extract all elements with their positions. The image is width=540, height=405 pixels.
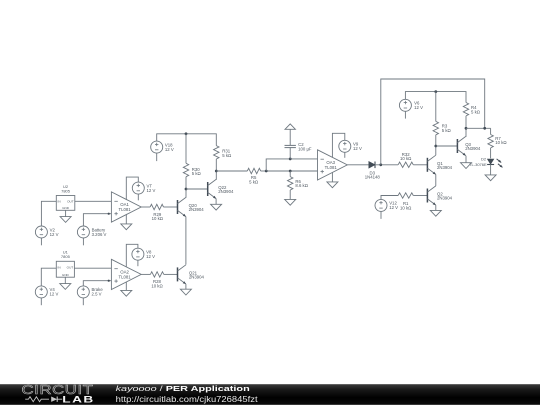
resistor R31 5 kOhm	[214, 146, 232, 159]
wire V2 top to U2 IN	[41, 201, 56, 226]
wire Q20 emitter down to Q21 collector	[185, 217, 187, 265]
wire Battery top to OA1 non-inverting input	[83, 214, 111, 226]
svg-text:5 kΩ: 5 kΩ	[471, 109, 481, 114]
transistor Q1 2N3904	[427, 155, 452, 174]
regulator U2 7805	[56, 184, 75, 211]
wire OA1 V+ pin to VT	[126, 177, 138, 200]
node R31/Q22/R5 junction	[215, 170, 218, 173]
svg-text:3.206 V: 3.206 V	[92, 232, 107, 237]
ground under R6	[285, 199, 296, 205]
svg-text:2N3904: 2N3904	[189, 207, 205, 212]
svg-text:OUT: OUT	[67, 265, 74, 269]
svg-text:12 V: 12 V	[146, 254, 155, 259]
svg-text:2N3904: 2N3904	[218, 189, 234, 194]
capacitor C2 100 uF	[285, 145, 296, 147]
voltage source V18 12 V	[151, 141, 174, 161]
resistor R1 10 kOhm	[398, 193, 427, 210]
svg-text:12 V: 12 V	[50, 232, 59, 237]
svg-text:2.5 V: 2.5 V	[92, 292, 102, 297]
node R30/Q20/Q22 junction	[185, 188, 188, 191]
voltage source V2 12 V	[35, 226, 58, 245]
voltage source V4 12 V	[35, 286, 58, 305]
wire node line to R7	[466, 127, 491, 129]
svg-text:2N3904: 2N3904	[189, 275, 205, 280]
ground under U1 GND pin	[60, 277, 71, 289]
wire Q22 collector to R31 node	[215, 171, 217, 179]
svg-text:10 kΩ: 10 kΩ	[495, 140, 507, 145]
svg-text:100 µF: 100 µF	[298, 146, 312, 151]
ground under Q21 emitter	[180, 284, 191, 295]
svg-text:5 kΩ: 5 kΩ	[442, 128, 452, 133]
svg-text:2N3904: 2N3904	[437, 196, 453, 201]
resistor R29 10 kOhm	[141, 204, 177, 221]
ground under LED D2	[485, 175, 496, 181]
op-amp OA1 TL081	[111, 192, 141, 222]
wire Q1 collector to R3 node	[435, 146, 437, 155]
wire Q1 emitter to Q2 collector	[435, 174, 437, 186]
resistor R32 10 kOhm	[398, 152, 427, 168]
svg-text:kayoooo / PER Application: kayoooo / PER Application	[116, 384, 250, 393]
node R4/Q3 junction	[465, 127, 468, 130]
resistor R6 8.6 kOhm	[288, 171, 309, 199]
node D3/top-rail junction	[379, 163, 382, 166]
resistor R28 10 kOhm	[141, 272, 177, 289]
ground under Q22 emitter	[211, 199, 222, 211]
wire D3 to R32	[375, 164, 398, 166]
transistor Q2 2N3904	[427, 186, 452, 205]
voltage source Brake 2.5 V	[77, 286, 103, 305]
voltage source V8 12 V (OA2 supply)	[132, 248, 155, 266]
svg-text:10 kΩ: 10 kΩ	[400, 205, 412, 210]
pin dot at OA2 + input	[108, 280, 110, 282]
voltage source V9 12 V (OA3 supply)	[339, 140, 362, 158]
ground under OA1 V- pin	[121, 215, 132, 230]
ground under U2 GND pin	[60, 210, 71, 222]
pin dot at OA1 + input	[108, 213, 110, 215]
svg-text:GND: GND	[62, 273, 70, 277]
wire node to Q22 base	[186, 188, 208, 190]
wire R5 to OA3 + input	[266, 170, 317, 172]
resistor R3 5 kOhm	[433, 92, 451, 146]
node C2 junction	[289, 158, 292, 161]
transistor Q21 2N3904	[178, 265, 205, 284]
wire C2 top lead to inverted ground	[289, 129, 291, 145]
wire OA2 V+ pin to V8	[126, 244, 138, 267]
svg-text:5 kΩ: 5 kΩ	[222, 153, 232, 158]
svg-text:D2: D2	[481, 157, 487, 162]
voltage source VT 12 V (OA1 supply)	[132, 182, 155, 200]
wire Q3 collector to R4 node	[465, 128, 467, 136]
LED D2 TL-3076E	[469, 157, 494, 175]
svg-text:10 kΩ: 10 kΩ	[151, 283, 163, 288]
wire node to Q3 base	[436, 145, 458, 147]
svg-text:TL081: TL081	[119, 207, 132, 212]
wire top rail	[381, 79, 485, 165]
svg-text:OUT: OUT	[67, 200, 74, 204]
node branch junction	[265, 170, 268, 173]
svg-text:http://circuitlab.com/cjku7268: http://circuitlab.com/cjku726845fzt	[116, 394, 259, 403]
svg-text:12 V: 12 V	[147, 188, 156, 193]
voltage source Battery 3.206 V	[77, 226, 106, 245]
wire OA3 output to D3	[347, 164, 369, 166]
ground under Q2 emitter	[430, 205, 441, 216]
svg-text:12 V: 12 V	[353, 146, 362, 151]
svg-text:7805: 7805	[61, 254, 71, 259]
wire branch up to OA3 - input	[266, 159, 317, 171]
svg-text:TL081: TL081	[325, 165, 338, 170]
transistor Q3 2N3904	[457, 136, 480, 155]
svg-text:IN: IN	[58, 200, 61, 204]
transistor Q22 2N3904	[208, 179, 234, 198]
svg-text:5 kΩ: 5 kΩ	[192, 171, 202, 176]
svg-text:7805: 7805	[61, 188, 71, 193]
wire Brake top to OA2 non-inverting input	[83, 281, 111, 286]
node rail/R30 junction	[185, 132, 188, 135]
voltage source V6 12 V	[399, 99, 423, 118]
svg-text:5 kΩ: 5 kΩ	[249, 179, 259, 184]
voltage source V12 12 V	[375, 199, 398, 219]
ground under OA3 V- pin	[327, 172, 338, 187]
svg-text:10 kΩ: 10 kΩ	[152, 216, 164, 221]
LED emission arrows	[497, 159, 503, 168]
svg-text:IN: IN	[58, 265, 61, 269]
wire V12 to R1	[381, 196, 398, 200]
svg-text:12 V: 12 V	[165, 147, 174, 152]
wire V4 top to U1 IN	[41, 268, 56, 286]
ground under Q3 emitter	[461, 156, 472, 169]
svg-text:10 kΩ: 10 kΩ	[400, 156, 412, 161]
svg-text:2N3904: 2N3904	[437, 165, 453, 170]
wire R31 bottom to output node	[215, 159, 217, 171]
resistor R30 5 kOhm	[183, 134, 201, 189]
svg-text:12 V: 12 V	[389, 205, 398, 210]
node rail2/R3 junction	[434, 90, 437, 93]
resistor R4 5 kOhm	[463, 103, 480, 129]
svg-text:1N4148: 1N4148	[365, 174, 381, 179]
op-amp OA3 TL081	[318, 150, 348, 180]
inverted ground above C2	[285, 124, 295, 129]
transistor Q20 2N3904	[178, 197, 205, 216]
node top-rail/node-line junction	[483, 127, 486, 130]
svg-text:8.6 kΩ: 8.6 kΩ	[295, 183, 308, 188]
wire OA3 V+ pin to V9	[332, 133, 344, 157]
node R3/Q1/Q3 junction	[434, 145, 437, 148]
wire U2 OUT to OA1 inverting input	[75, 200, 112, 202]
svg-text:2N3904: 2N3904	[465, 146, 481, 151]
svg-text:GND: GND	[62, 206, 70, 210]
ground under OA2 V- pin	[121, 282, 132, 296]
resistor R7 10 kOhm	[488, 128, 508, 158]
wire V6 rail to R4 top	[405, 92, 466, 103]
svg-text:TL081: TL081	[119, 274, 132, 279]
node R6 junction	[289, 170, 292, 173]
wire Q20 collector to R30/Q22 node	[185, 189, 187, 197]
regulator U1 7805	[56, 250, 74, 278]
wire V18 rail to R31 top	[157, 134, 217, 146]
resistor R5 5 kOhm	[216, 168, 266, 184]
wire U1 OUT to OA2 inverting input	[74, 267, 111, 269]
diode D3 1N4148	[369, 162, 375, 169]
svg-text:LAB: LAB	[62, 394, 94, 404]
svg-text:TL-3076E: TL-3076E	[469, 162, 487, 167]
wire C2 bottom lead	[289, 148, 291, 159]
svg-text:12 V: 12 V	[414, 105, 423, 110]
op-amp OA2 TL081	[111, 259, 141, 289]
svg-text:12 V: 12 V	[50, 292, 59, 297]
